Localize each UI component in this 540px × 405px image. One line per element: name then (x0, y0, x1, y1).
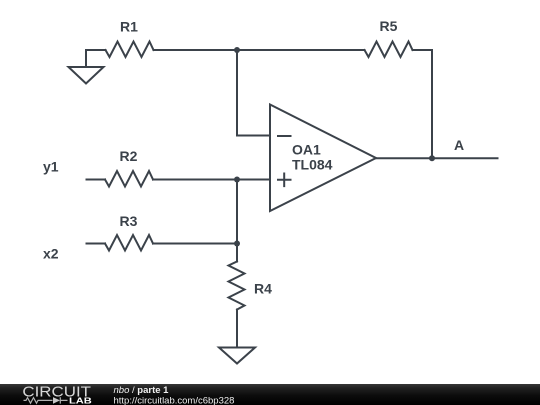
junction node R3 row (234, 241, 240, 247)
resistor R4 (229, 262, 245, 310)
wire R3 to node (153, 243, 237, 245)
resistor R5 (365, 42, 413, 58)
wire x2 lead (87, 243, 106, 245)
svg-text:R5: R5 (380, 18, 398, 34)
op-amp OA1 triangle (270, 105, 376, 212)
wire node to R4 (236, 244, 238, 262)
resistor R1 (106, 42, 154, 58)
op-amp minus symbol (278, 135, 291, 137)
wire y1 lead (87, 179, 106, 181)
wire R5 to output node (413, 50, 433, 158)
ground (bottom) (219, 348, 255, 364)
resistor R3 (105, 235, 153, 251)
logo resistor-diode squiggle (24, 397, 68, 403)
svg-text:LAB: LAB (69, 396, 92, 405)
svg-text:nbo / parte 1: nbo / parte 1 (114, 385, 170, 396)
ground (top-left) (69, 50, 104, 84)
wire R2 to non-inverting input (153, 179, 270, 181)
svg-text:y1: y1 (43, 159, 59, 175)
svg-text:TL084: TL084 (292, 157, 333, 173)
wire R4 to ground (236, 310, 238, 348)
junction node R1/R5/feedback (234, 47, 240, 53)
svg-text:R3: R3 (120, 213, 138, 229)
footer bar (0, 384, 540, 405)
wire R1 to R5 (154, 49, 365, 51)
svg-text:OA1: OA1 (292, 142, 321, 158)
junction node output A (429, 155, 435, 161)
svg-text:x2: x2 (43, 246, 59, 262)
wire output (376, 157, 498, 159)
svg-text:A: A (454, 137, 464, 153)
svg-text:R2: R2 (120, 148, 138, 164)
wire feedback node down to inverting input (237, 50, 270, 136)
svg-text:R1: R1 (120, 19, 138, 35)
op-amp plus symbol (278, 174, 291, 187)
svg-text:R4: R4 (254, 281, 272, 297)
wire node to R3 node (236, 180, 238, 244)
resistor R2 (105, 171, 153, 187)
svg-text:http://circuitlab.com/c6bp328: http://circuitlab.com/c6bp328 (114, 396, 235, 405)
wire ground to R1 (86, 49, 106, 51)
junction node R2 row (234, 177, 240, 183)
